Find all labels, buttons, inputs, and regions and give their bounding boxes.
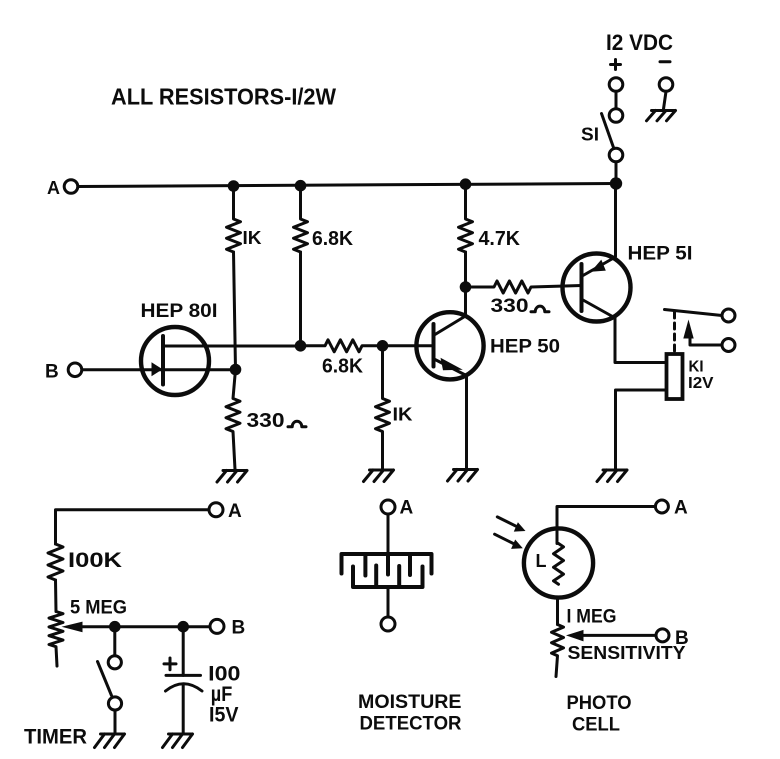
- node dot bus-4.7K: [460, 178, 472, 190]
- wire sensor to terminal: [387, 587, 390, 617]
- relay contact terminal lower: [722, 339, 735, 352]
- svg-text:SENSITIVITY: SENSITIVITY: [568, 643, 686, 663]
- relay armature arm: [665, 310, 723, 316]
- capacitor plus: [164, 658, 176, 670]
- resistor 1K (left): [227, 186, 241, 252]
- relay contact terminal upper: [722, 309, 735, 322]
- svg-text:6.8K: 6.8K: [312, 228, 354, 250]
- potentiometer 5 MEG: [49, 612, 63, 667]
- svg-text:I00K: I00K: [68, 548, 123, 572]
- svg-text:MOISTURE: MOISTURE: [358, 692, 462, 713]
- svg-text:I2V: I2V: [688, 375, 714, 392]
- timer switch contact lower: [108, 697, 121, 710]
- terminal B photo: [656, 629, 669, 642]
- photocell L: [524, 528, 593, 597]
- terminal circle plus lower: [609, 109, 623, 123]
- wire A to photocell: [557, 507, 655, 544]
- svg-text:A: A: [228, 501, 242, 522]
- wire 4.7K to node: [464, 252, 467, 287]
- svg-text:B: B: [232, 618, 246, 639]
- terminal A photo: [655, 500, 668, 513]
- resistor 330 ohm vertical: [226, 370, 240, 470]
- svg-text:A: A: [400, 498, 414, 519]
- ground minus: [647, 111, 676, 121]
- node dot wiper-cap: [177, 621, 189, 633]
- resistor 6.8K (vertical): [294, 186, 308, 252]
- svg-text:I5V: I5V: [209, 704, 239, 727]
- terminal bottom moisture: [381, 617, 395, 631]
- minus terminal symbol -: [660, 60, 670, 63]
- wire photocell to pot: [556, 598, 559, 625]
- svg-text:KI: KI: [689, 359, 704, 376]
- relay K1 coil: [667, 354, 683, 399]
- wire cap to ground: [182, 685, 185, 734]
- ground timer: [95, 734, 125, 748]
- ground 330: [217, 471, 247, 483]
- node dot bus-6.8K: [295, 180, 307, 192]
- wire HEP801 drain row: [163, 345, 301, 348]
- wire switch to ground: [114, 710, 117, 733]
- wire 6.8K to node: [299, 252, 302, 346]
- timer switch contact upper: [108, 656, 121, 669]
- svg-text:B: B: [45, 362, 59, 383]
- relay arrow: [683, 320, 693, 339]
- pot wiper arrow photo: [566, 630, 584, 642]
- svg-text:TIMER: TIMER: [24, 726, 87, 749]
- terminal circle minus: [659, 78, 673, 92]
- svg-text:HEP 50: HEP 50: [490, 337, 560, 358]
- terminal A circle: [64, 180, 78, 194]
- relay linkage dashed: [673, 312, 676, 351]
- moisture sensor comb top: [342, 554, 432, 576]
- svg-text:IK: IK: [393, 405, 413, 425]
- svg-text:PHOTO: PHOTO: [567, 692, 632, 714]
- switch S1 blade: [602, 114, 614, 148]
- plus terminal symbol +: [611, 60, 621, 70]
- svg-text:I MEG: I MEG: [567, 607, 617, 628]
- node dot bus-1K: [228, 180, 240, 192]
- wire plus stub: [615, 92, 618, 109]
- terminal B circle: [68, 363, 82, 377]
- wire A to sensor: [387, 514, 390, 554]
- wire relay coil bottom to ground: [616, 390, 667, 469]
- node dot collector HEP50: [460, 281, 472, 293]
- svg-text:6.8K: 6.8K: [322, 356, 364, 378]
- svg-text:4.7K: 4.7K: [479, 228, 521, 250]
- node dot bus-S1: [610, 177, 622, 189]
- ground 1K middle: [364, 470, 394, 482]
- transistor Q1 HEP 801: [141, 327, 209, 395]
- wire 1K to node: [234, 252, 236, 370]
- resistor 1K middle: [376, 346, 390, 470]
- wire wiper to B: [80, 625, 210, 628]
- moisture sensor comb bottom: [353, 566, 423, 588]
- wire 100K to pot: [54, 580, 58, 612]
- wire HEP51 collector to relay: [615, 318, 666, 363]
- wire HEP51 emitter to bus: [614, 184, 617, 257]
- wire A to 100K: [56, 510, 210, 544]
- capacitor plates: [166, 674, 201, 677]
- wire to timer switch: [113, 627, 116, 656]
- svg-text:CELL: CELL: [572, 714, 620, 736]
- svg-text:ALL RESISTORS-I/2W: ALL RESISTORS-I/2W: [111, 84, 336, 110]
- terminal A moisture: [381, 500, 395, 514]
- ground capacitor: [163, 734, 193, 748]
- switch S1 contact circle: [609, 148, 623, 162]
- terminal circle plus upper: [609, 78, 623, 92]
- ground HEP50: [448, 470, 478, 482]
- timer switch blade: [98, 662, 112, 696]
- wire S1 to bus: [615, 162, 618, 184]
- node dot source-1K-330: [230, 364, 242, 376]
- wire bus A: [78, 184, 616, 187]
- svg-text:330: 330: [491, 296, 529, 317]
- ground relay: [597, 470, 627, 482]
- transistor Q3 HEP 51: [563, 254, 631, 322]
- resistor 100K: [48, 544, 63, 580]
- wire B to gate: [82, 368, 236, 371]
- transistor Q2 HEP 50: [416, 312, 483, 379]
- node dot 6.8K top: [295, 340, 307, 352]
- svg-text:L: L: [536, 551, 547, 571]
- wire minus stub: [664, 92, 667, 110]
- resistor 4.7K: [459, 184, 473, 252]
- svg-text:A: A: [47, 178, 60, 198]
- wire wiper to B photo: [581, 634, 656, 637]
- terminal B timer: [210, 619, 224, 633]
- svg-text:A: A: [674, 498, 688, 519]
- node dot base HEP50: [377, 340, 389, 352]
- wire HEP50 emitter to ground: [465, 375, 468, 469]
- node dot wiper-switch: [109, 621, 121, 633]
- pot wiper arrow: [62, 622, 83, 633]
- svg-text:SI: SI: [581, 125, 599, 145]
- light arrow 1: [497, 517, 518, 527]
- potentiometer 1 MEG: [552, 625, 564, 677]
- wire HEP50 collector: [464, 287, 467, 316]
- terminal A timer: [209, 503, 223, 517]
- svg-text:HEP 5I: HEP 5I: [628, 244, 693, 265]
- capacitor C1: [182, 627, 185, 676]
- light arrow 2: [495, 534, 516, 544]
- relay lower contact wire: [690, 339, 722, 346]
- svg-text:HEP 80I: HEP 80I: [141, 301, 218, 322]
- svg-text:DETECTOR: DETECTOR: [360, 714, 462, 735]
- svg-text:330: 330: [247, 410, 285, 432]
- resistor 330 ohm (horizontal): [466, 281, 582, 293]
- svg-text:5 MEG: 5 MEG: [70, 597, 127, 619]
- svg-text:IK: IK: [243, 228, 262, 248]
- svg-text:I2 VDC: I2 VDC: [606, 30, 673, 55]
- resistor 6.8K horizontal: [301, 340, 432, 352]
